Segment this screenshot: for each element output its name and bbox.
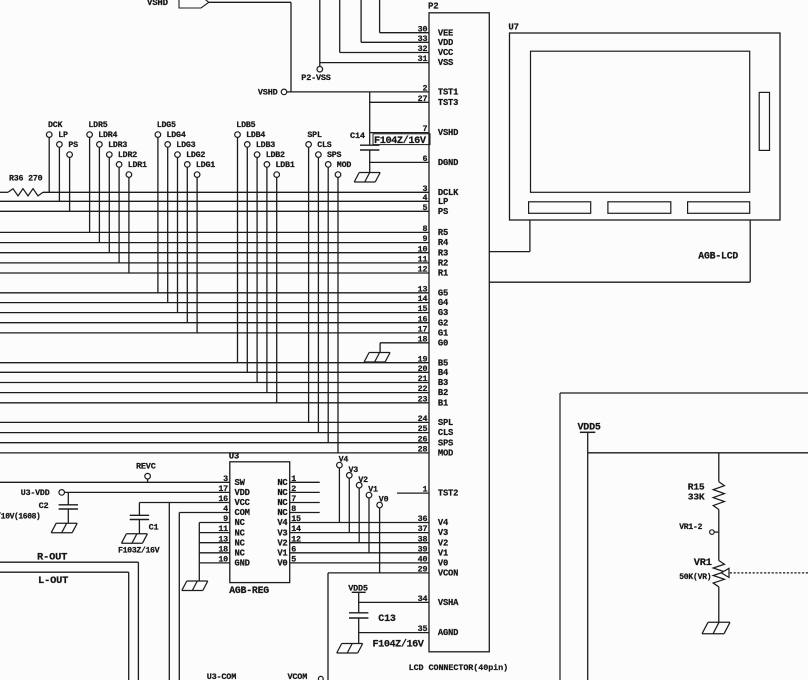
U3 pin 1 NC [277,474,319,488]
node LDR2 terminal and wire [116,151,137,263]
node LP terminal and wire [57,131,68,202]
svg-text:TST2: TST2 [438,489,458,499]
svg-text:VDD: VDD [235,488,250,498]
wire TST3 to TST1 vertical / C14 feed [369,92,371,145]
capacitor C13 [349,613,396,625]
svg-text:14: 14 [291,524,301,534]
svg-text:50K(VR): 50K(VR) [679,573,711,582]
P2 pin 36 V4 wire [290,514,449,528]
svg-text:38: 38 [418,534,428,544]
svg-text:34: 34 [418,594,428,604]
P2 pin 21 B3 wire [0,374,448,388]
net flag VSHD (top-left) [147,0,209,8]
svg-text:VCC: VCC [438,48,454,58]
svg-text:VSHD: VSHD [438,128,458,138]
svg-text:37: 37 [418,524,428,534]
svg-text:VCOM: VCOM [288,672,308,680]
svg-text:LDB1: LDB1 [276,161,295,170]
svg-text:28: 28 [418,445,428,455]
node VSHD terminal [258,88,291,98]
node LDG3 terminal and wire [175,141,196,313]
node SPS terminal and wire [325,151,341,443]
U3 pin 18 NC [218,544,245,558]
svg-text:F103Z/16V: F103Z/16V [118,546,160,556]
svg-text:7: 7 [422,124,427,134]
svg-text:17: 17 [418,325,428,335]
svg-text:NC: NC [235,549,246,559]
svg-text:R36 270: R36 270 [9,175,43,184]
P2 pin 15 G3 wire [0,304,448,318]
U3 pin 10 GND [218,555,249,569]
U3 pin 13 NC [218,534,245,548]
U7 LCD screen rectangle [531,51,750,192]
node U3-VDD terminal [21,489,65,498]
U3 pin 2 NC [277,484,319,498]
svg-text:1: 1 [422,485,427,495]
node LDB3 terminal and wire [254,141,275,383]
P2 pin 25 CLS wire [0,424,453,438]
node LDR3 terminal and wire [107,141,128,253]
node LDG4 terminal and wire [165,131,186,303]
svg-text:V4: V4 [277,518,288,528]
P2 pin 29 VCON wire [328,565,458,579]
svg-text:22: 22 [418,384,428,394]
svg-text:V0: V0 [438,559,448,569]
svg-text:LDG1: LDG1 [196,161,215,170]
svg-text:LDR2: LDR2 [118,151,137,160]
svg-text:COM: COM [235,508,250,518]
P2 pin 32 VCC wire [340,44,454,58]
svg-text:R1: R1 [438,269,448,279]
P2 pin 16 G2 wire [0,314,448,328]
svg-text:F104Z/16V: F104Z/16V [373,638,425,650]
svg-text:18: 18 [418,334,428,344]
U3 pin 4 COM [223,504,250,518]
svg-text:R3: R3 [438,248,448,258]
capacitor C14 [350,131,430,150]
svg-text:V3: V3 [277,528,287,538]
svg-text:V2: V2 [277,538,287,548]
P2 pin 30 VEE wire [380,24,454,38]
svg-text:VCON: VCON [438,569,458,579]
svg-text:39: 39 [418,544,428,554]
net R-OUT wire [0,552,138,680]
svg-text:29: 29 [418,565,428,575]
svg-text:V0: V0 [277,559,287,569]
svg-text:LDB5: LDB5 [236,121,255,130]
svg-text:VR1: VR1 [694,557,712,569]
P2 pin 31 VSS wire [320,54,453,68]
U3 pin 3 SW [223,474,245,488]
ground at P2 pin 18 G0 [364,343,390,362]
node LDR5 terminal and wire [87,121,108,232]
svg-text:NC: NC [277,488,288,498]
svg-text:SW: SW [235,478,246,488]
svg-text:VSHD: VSHD [258,88,278,98]
U3 pin 12 V2 [277,534,301,548]
svg-text:SPL: SPL [307,131,322,140]
AGB-LCD module boundary [489,220,750,282]
U3 pin 16 VCC [218,494,250,508]
P2 pin 39 V1 wire [290,544,448,558]
P2 pin 19 B5 wire [0,354,448,368]
svg-text:G2: G2 [438,318,448,328]
svg-text:LDB3: LDB3 [256,141,275,150]
svg-text:V1: V1 [438,548,448,558]
ground under C13 [337,644,363,654]
svg-text:VEE: VEE [438,28,453,38]
svg-text:NC: NC [277,498,288,508]
node LDR1 terminal and wire [126,161,147,273]
power VDD5 (near C13) [348,583,368,612]
svg-text:REVC: REVC [136,462,156,472]
svg-text:LDG4: LDG4 [167,131,186,140]
IC U3 AGB-REG box [229,451,290,596]
P2 pin 34 VSHA wire [359,594,459,608]
node LDR4 terminal and wire [97,131,118,243]
svg-text:LP: LP [58,131,68,140]
svg-text:26: 26 [418,434,428,444]
svg-text:R5: R5 [438,228,448,238]
svg-text:NC: NC [235,518,246,528]
svg-text:B1: B1 [438,398,448,408]
P2 pin 11 R2 wire [0,255,448,269]
svg-text:4: 4 [422,193,427,203]
boundary box (contrast circuit) [560,393,808,680]
svg-text:20: 20 [418,364,428,374]
svg-text:V3: V3 [438,528,448,538]
svg-text:NC: NC [277,508,288,518]
svg-text:PS: PS [438,207,448,217]
svg-text:12: 12 [418,265,428,275]
ground under VR1 [702,622,730,634]
svg-text:12: 12 [291,534,301,544]
svg-text:AGB-LCD: AGB-LCD [698,251,738,262]
svg-text:V4: V4 [339,456,349,465]
svg-text:31: 31 [418,54,428,64]
U3 pin 14 V3 [277,524,301,538]
svg-text:LCD CONNECTOR(40pin): LCD CONNECTOR(40pin) [409,663,509,673]
P2 pin 13 G5 wire [0,284,448,298]
wire COM row [179,512,230,514]
svg-text:SPL: SPL [438,418,453,428]
U3 pin 11 NC [218,524,245,538]
wire VDD5 down to bottom edge [587,453,589,680]
node P2-VSS [301,0,331,83]
node LDB4 terminal and wire [245,131,266,372]
node CLS terminal and wire [316,141,332,433]
P2 pin 40 V0 wire [290,555,448,569]
wire VDD5 row to R15 [718,453,720,482]
svg-text:TST3: TST3 [438,98,458,108]
svg-text:NC: NC [235,538,246,548]
svg-text:LDG5: LDG5 [157,121,176,130]
svg-text:V2: V2 [358,476,368,485]
U7 bottom pad 1 [529,202,591,214]
svg-text:L-OUT: L-OUT [38,575,68,587]
svg-text:P2-VSS: P2-VSS [301,73,331,83]
svg-text:C2: C2 [39,501,49,511]
P2 pin 9 R4 wire [0,234,449,248]
svg-text:V1: V1 [277,549,287,559]
svg-text:21: 21 [418,374,428,384]
svg-text:R2: R2 [438,259,448,269]
node V2 terminal [356,476,368,543]
svg-text:B4: B4 [438,368,449,378]
wire VDD5 row [588,452,808,454]
svg-text:11: 11 [418,255,428,265]
svg-text:33: 33 [418,34,428,44]
node LDG5 terminal and wire [155,121,176,293]
svg-text:25: 25 [418,424,428,434]
svg-text:10: 10 [418,244,428,254]
svg-text:24: 24 [418,414,428,424]
ground under C2 [51,523,77,533]
svg-text:5: 5 [291,555,296,565]
U3 pin 15 V4 [277,514,301,528]
svg-text:G1: G1 [438,329,448,339]
svg-text:6: 6 [422,154,427,164]
wire R15 to VR1 [718,510,720,561]
node REVC terminal [136,462,156,483]
svg-text:GND: GND [235,559,250,569]
svg-text:LDR4: LDR4 [98,131,117,140]
svg-text:DCK: DCK [48,121,63,130]
svg-text:9: 9 [422,234,427,244]
wire VSHD flag to TST1 row [209,2,291,92]
svg-text:V0: V0 [379,496,389,505]
connector P2 (LCD connector box) [428,2,489,652]
svg-text:33K: 33K [688,491,705,502]
svg-text:P2: P2 [428,2,438,12]
P2 pin 24 SPL wire [0,414,453,428]
svg-text:NC: NC [277,478,288,488]
node LDB1 terminal and wire [274,161,295,403]
svg-text:TST1: TST1 [438,88,458,98]
P2 pin 12 R1 wire [0,265,448,279]
svg-text:32: 32 [418,44,428,54]
svg-text:CLS: CLS [317,141,332,150]
svg-text:LDG2: LDG2 [186,151,205,160]
U3 pin 6 V1 [277,544,296,558]
svg-text:13: 13 [418,284,428,294]
svg-text:PS: PS [68,141,78,150]
P2 pin 6 DGND wire [370,154,459,168]
svg-text:SPS: SPS [327,151,342,160]
svg-text:LDB2: LDB2 [266,151,285,160]
node V1 terminal [366,486,378,553]
wire VCC from top [339,0,341,53]
svg-text:40: 40 [418,555,428,565]
wire SW row [0,481,230,483]
wire C14 to DGND and ground [369,150,371,173]
node LDB2 terminal and wire [264,151,285,393]
svg-text:LDB4: LDB4 [246,131,265,140]
svg-text:VDD: VDD [438,38,453,48]
svg-text:LDG3: LDG3 [176,141,195,150]
P2 pin 38 V2 wire [290,534,448,548]
node VR1-2 tap [679,523,719,534]
svg-text:V3: V3 [349,466,359,475]
P2 pin 7 VSHD wire [370,124,459,138]
U3 pin 8 NC [277,504,319,518]
svg-text:16: 16 [418,314,428,324]
wire VDD row [65,491,230,493]
P2 pin 18 G0 wire [380,334,448,348]
wire VEE from top [379,0,381,33]
P2 pin 22 B2 wire [0,384,448,398]
svg-text:2: 2 [422,84,427,94]
resistor R15 33K [688,481,725,509]
svg-text:G3: G3 [438,308,448,318]
svg-text:5: 5 [422,203,427,213]
wire VDD from top [360,0,362,42]
P2 pin 5 PS wire [0,203,448,217]
svg-text:MOD: MOD [337,161,352,170]
wire VCC row [139,502,229,504]
svg-text:27: 27 [418,94,428,104]
wire C13 to AGND row and ground [358,618,360,644]
P2 pin 35 AGND wire [359,624,459,638]
svg-text:6: 6 [291,544,296,554]
svg-text:MOD: MOD [438,449,453,459]
P2 pin 8 R5 wire [0,224,448,238]
svg-text:SPS: SPS [438,438,453,448]
svg-text:U3-VDD: U3-VDD [21,489,50,498]
node VCOM label [288,672,324,680]
svg-text:U7: U7 [508,23,518,33]
svg-text:15: 15 [291,514,301,524]
node V3 terminal [347,466,359,533]
svg-text:B2: B2 [438,388,448,398]
node V0 terminal [377,496,389,573]
svg-text:35: 35 [418,624,428,634]
svg-text:VCC: VCC [235,498,251,508]
resistor R36 270 [0,175,43,196]
svg-text:G5: G5 [438,288,448,298]
wire VCON down to VCOM [327,573,329,680]
P2 pin 3 DCLK wire [43,184,459,198]
wire C2 to ground [67,509,69,523]
ground under C14 [354,173,380,183]
U3 pin 5 V0 [277,555,296,569]
P2 pin 33 VDD wire [361,34,453,48]
wire U3 NC/GND left stubs [199,523,230,563]
svg-text:VR1-2: VR1-2 [679,523,702,532]
module U7 AGB-LCD outer box [508,23,780,220]
svg-text:VSS: VSS [438,58,453,68]
node PS terminal and wire [67,141,78,211]
svg-text:U3: U3 [229,451,239,461]
svg-text:U3-COM: U3-COM [207,672,237,680]
P2 pin 20 B4 wire [0,364,449,378]
potentiometer VR1 50K(VR) [679,557,808,587]
P2 pin 27 TST3 wire [370,94,459,108]
svg-text:23: 23 [418,394,428,404]
svg-text:VSHA: VSHA [438,598,459,608]
node MOD terminal and wire [335,161,351,453]
power VDD5 (contrast) [578,423,601,453]
node V4 terminal [337,456,349,523]
P2 pin 28 MOD wire [0,445,453,459]
P2 pin 17 G1 wire [0,325,448,339]
capacitor C1 [118,503,160,556]
capacitor C2 [0,492,78,521]
svg-text:B5: B5 [438,358,448,368]
wire C1 to ground [138,520,140,534]
svg-text:36: 36 [418,514,428,524]
svg-text:DGND: DGND [438,158,458,168]
svg-text:VSHD: VSHD [147,0,169,8]
svg-text:15: 15 [418,304,428,314]
U7 bottom pad 3 [688,202,750,214]
svg-text:V1: V1 [368,486,378,495]
P2 pin 1 TST2 wire [397,485,458,499]
P2 pin 2 TST1 wire [291,84,458,98]
P2 pin 4 LP wire [0,193,448,207]
ground U3 GND [182,581,208,591]
node DCK terminal and wire [46,121,62,192]
svg-text:Z/10V(1608): Z/10V(1608) [0,512,40,521]
svg-text:G4: G4 [438,298,449,308]
P2 pin 37 V3 wire [290,524,448,538]
svg-text:8: 8 [422,224,427,234]
svg-text:19: 19 [418,354,428,364]
svg-text:F104Z/16V: F104Z/16V [374,135,427,147]
svg-text:LDR5: LDR5 [88,121,107,130]
svg-text:30: 30 [418,24,428,34]
svg-text:G0: G0 [438,338,448,348]
svg-text:AGB-REG: AGB-REG [229,585,269,596]
node LDB5 terminal and wire [235,121,256,363]
svg-text:14: 14 [418,294,428,304]
svg-text:R4: R4 [438,238,449,248]
wire GND to ground [198,563,200,581]
ground under C1 [121,534,147,544]
wire VR1 to ground [718,587,720,623]
U7 bottom pad 2 [608,202,671,214]
wire VCC tap down to bottom edge [168,503,170,680]
U3 pin 9 NC [223,514,245,528]
P2 pin 23 B1 wire [0,394,448,408]
wire COM down to U3-COM [178,513,180,680]
P2 pin 26 SPS wire [0,434,453,448]
svg-text:AGND: AGND [438,628,458,638]
svg-text:LDR1: LDR1 [128,161,147,170]
P2 pin 14 G4 wire [0,294,449,308]
net L-OUT wire [0,572,129,680]
U7 side tab rectangle [759,92,769,150]
svg-text:CLS: CLS [438,428,453,438]
node LDG2 terminal and wire [185,151,206,323]
svg-text:C13: C13 [378,614,396,625]
svg-text:C14: C14 [350,131,365,141]
svg-text:LP: LP [438,197,448,207]
node LDG1 terminal and wire [194,161,215,333]
svg-text:LDR3: LDR3 [108,141,127,150]
svg-text:B3: B3 [438,378,448,388]
svg-text:V4: V4 [438,518,449,528]
svg-text:C1: C1 [149,523,159,533]
svg-text:V2: V2 [438,538,448,548]
node SPL terminal and wire [306,131,322,423]
svg-text:NC: NC [235,528,246,538]
U3 pin 7 NC [277,494,319,508]
U3 pin 17 VDD [218,484,249,498]
P2 pin 10 R3 wire [0,244,448,258]
